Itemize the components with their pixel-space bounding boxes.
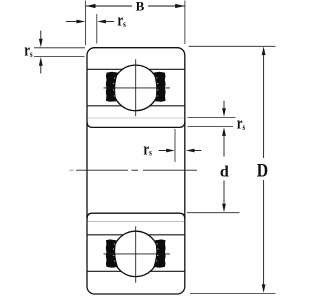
crosshair upper ball — [104, 59, 171, 116]
cage section blob upper-right — [153, 72, 165, 102]
svg-text:D: D — [257, 160, 268, 180]
thin shoulder line lower — [87, 221, 185, 223]
extension line B left — [84, 1, 86, 46]
extension line rs top — [96, 14, 98, 44]
cage section blob lower-left — [106, 239, 118, 267]
rivet dots upper-right blob — [156, 77, 158, 96]
dimension rs top arrows — [66, 20, 114, 24]
axis center line — [70, 169, 198, 171]
dimension B line and arrows — [86, 4, 185, 8]
dimension D line and arrows — [262, 46, 266, 293]
bearing outline rounded rect — [87, 48, 185, 294]
outer ring land line lower — [87, 270, 185, 272]
label rs center — [143, 141, 151, 159]
extension line rs vertical inner — [174, 129, 176, 162]
extension line d bottom — [187, 212, 240, 214]
extension line B right — [184, 1, 186, 45]
extension line left top-face — [34, 47, 85, 49]
rivet dots lower-left blob — [113, 243, 115, 261]
extension line D top — [189, 45, 276, 47]
cage section blob lower-right — [153, 239, 165, 267]
ball lower — [113, 231, 158, 276]
inner ring land line lower — [87, 234, 185, 236]
label rs right-middle — [237, 115, 245, 133]
thin shoulder line upper — [87, 117, 185, 119]
outer ring land line upper — [87, 68, 185, 70]
dimension rs right-middle arrows — [222, 101, 226, 157]
extension line D bottom — [190, 293, 276, 295]
rivet dots upper-left blob — [113, 77, 115, 96]
bore line lower with chamfer corners — [87, 213, 185, 219]
svg-text:d: d — [220, 164, 229, 181]
dimension rs left arrows — [39, 31, 43, 74]
label rs left — [24, 42, 32, 60]
label rs top — [117, 12, 125, 30]
ball upper — [113, 65, 159, 111]
crosshair lower ball — [104, 226, 171, 282]
inner ring land line upper — [87, 105, 185, 107]
svg-text:B: B — [136, 0, 145, 14]
rivet dots lower-right blob — [156, 243, 158, 261]
extension line left corner-bottom — [34, 56, 85, 58]
label D — [257, 160, 268, 180]
extension line rs right lower — [188, 126, 234, 128]
bore line upper with chamfer corners — [87, 122, 185, 128]
dimension rs center arrows — [159, 149, 202, 153]
extension line rs right upper — [188, 116, 236, 118]
dimension d line and arrows — [222, 181, 226, 213]
cage section blob upper-left — [106, 72, 118, 102]
